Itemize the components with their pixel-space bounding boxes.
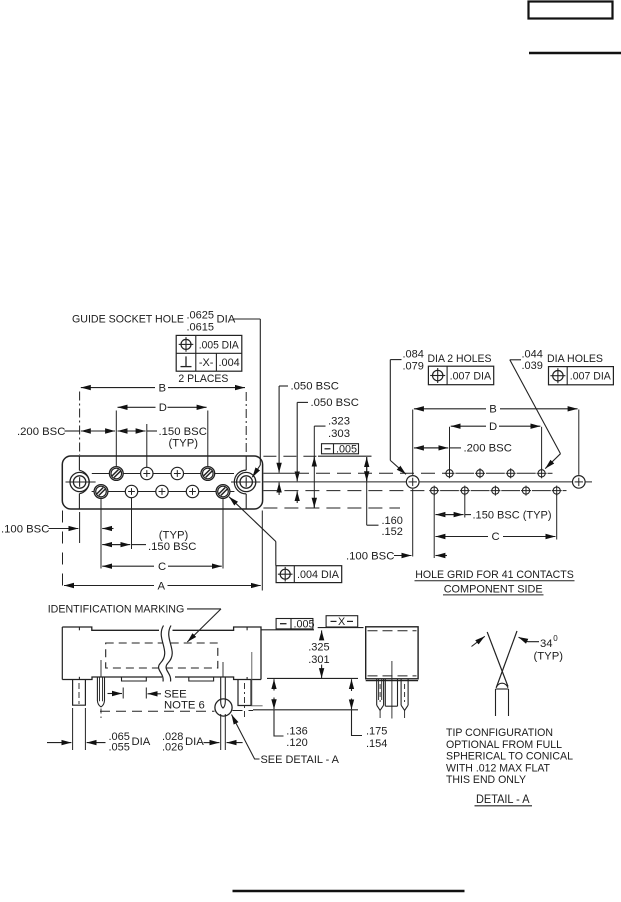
open contact hole at 131.5,491.5 [125,485,137,497]
svg-text:(TYP): (TYP) [169,437,199,449]
svg-text:.100 BSC: .100 BSC [1,523,49,535]
svg-text:.303: .303 [328,428,350,440]
svg-text:.050 BSC: .050 BSC [311,397,359,409]
identification marking dashed zone [106,643,218,668]
left guide socket hole [73,476,85,488]
svg-text:B: B [489,404,497,416]
extension line hole col 146.8 [146,424,148,467]
standoff boss 2 [189,677,214,681]
svg-text:.007 DIA: .007 DIA [450,371,492,383]
svg-text:SPHERICAL TO CONICAL: SPHERICAL TO CONICAL [446,751,573,763]
svg-text:.004 DIA: .004 DIA [297,569,340,581]
datum X box [318,627,364,629]
svg-text:.026: .026 [162,742,183,754]
.065/.055 DIA dimension [72,708,74,750]
.136/.120 dimension [273,679,275,690]
end view body [366,627,418,679]
svg-text:.154: .154 [366,738,387,750]
datum line under -.005 box [261,629,314,631]
end view pin C [400,680,402,706]
left end seam and guide boss arc [78,457,80,471]
leader from hatched hole to .004 DIA frame [229,497,276,542]
svg-text:X: X [338,616,345,628]
svg-text:(TYP): (TYP) [159,530,189,542]
detail A spherical tip arc [496,683,508,688]
svg-text:.005: .005 [294,619,315,631]
feature control frame .004 DIA [276,566,342,583]
svg-text:THIS END ONLY: THIS END ONLY [446,774,526,786]
contact hole position symbol at 449.5,473.3 [446,470,453,477]
extension line hole col 116.3 [115,411,117,467]
svg-text:COMPONENT SIDE: COMPONENT SIDE [444,583,543,595]
svg-text:.084: .084 [403,349,424,361]
contact hole position symbol at 510.7,473.3 [507,470,514,477]
leader to right guide hole [234,318,261,320]
feature control frame (guide holes) [176,335,242,371]
pin tip plane dashed line [100,710,215,712]
standoff boss 1 [122,677,147,681]
open contact hole at 192.5,491.5 [186,485,198,497]
dimension D (left view) [118,406,156,408]
.150 BSC (grid) [435,514,458,516]
dimension C (left view) [102,565,154,567]
extension line hole col 207.8 [207,411,209,467]
svg-text:.007 DIA: .007 DIA [570,371,612,383]
contact hole position symbol at 541.6,473.3 [538,470,545,477]
svg-text:34: 34 [540,638,553,650]
svg-text:B: B [159,382,167,394]
contact hole position symbol at 480,473.3 [476,470,483,477]
.200 BSC (grid) [414,447,443,449]
break squiggle [159,626,173,682]
svg-text:OPTIONAL FROM FULL: OPTIONAL FROM FULL [446,739,562,751]
contact pin 1 (side view) [96,677,98,700]
svg-text:.004: .004 [218,357,239,369]
.325/.301 dimension [321,630,323,639]
svg-text:0: 0 [553,634,558,643]
svg-text:.100 BSC: .100 BSC [346,550,394,562]
svg-text:.200 BSC: .200 BSC [17,426,65,438]
svg-text:.301: .301 [308,654,329,666]
contact hole position symbol at 556.7,490.6 [553,487,560,494]
open contact hole at 146.8,473.5 [141,467,153,479]
svg-text:D: D [159,402,167,414]
svg-text:-X-: -X- [199,357,214,369]
svg-text:C: C [492,531,500,543]
feature control frame .007 DIA (right) [549,367,614,385]
svg-text:DIA HOLES: DIA HOLES [547,353,603,365]
svg-text:(TYP): (TYP) [534,650,564,662]
header classification box (empty) [529,2,613,19]
svg-text:A: A [158,580,166,592]
grid extension lines [412,410,414,475]
row datum lines between the two top views [263,455,318,457]
svg-text:IDENTIFICATION MARKING: IDENTIFICATION MARKING [48,604,185,616]
.028/.026 DIA dimension [220,714,222,750]
svg-text:.079: .079 [403,360,424,372]
svg-text:HOLE GRID FOR 41 CONTACTS: HOLE GRID FOR 41 CONTACTS [415,569,574,581]
svg-text:.325: .325 [308,641,329,653]
.160/.152 dimension [366,457,368,481]
svg-text:DIA 2 HOLES: DIA 2 HOLES [428,353,492,365]
detail circle around pin tip [215,699,232,716]
angle arrows 34 deg [472,636,485,646]
right end seam and guide boss arc [245,457,247,471]
dimension B (left view) [81,387,155,389]
svg-text:.039: .039 [522,360,543,372]
end cavity hidden line [252,652,263,706]
left guide pin (side view) [73,680,86,705]
.175/.154 dimension [351,679,353,691]
svg-text:.044: .044 [522,348,543,360]
detail A taper lines [487,632,508,687]
svg-text:.136: .136 [286,725,307,737]
open contact hole at 177.3,473.5 [171,467,183,479]
contact hole position symbol at 434.2,490.6 [431,487,438,494]
contact hole position symbol at 526,490.6 [522,487,529,494]
feature control frame .007 DIA (left) [428,366,493,385]
svg-text:.0625: .0625 [187,310,215,322]
right guide pin (side view) [238,680,251,706]
svg-text:.160: .160 [382,515,403,527]
svg-text:.0615: .0615 [187,322,215,334]
svg-text:D: D [489,421,497,433]
.150 BSC dimension (left view top) [118,430,141,432]
svg-text:SEE DETAIL - A: SEE DETAIL - A [261,754,340,766]
seating plane line to end view [253,709,358,711]
svg-text:.005 DIA: .005 DIA [199,339,240,351]
left guide hole (grid) [406,476,419,489]
hatched (filled) contact hole at 116.3,473.5 [109,467,123,481]
svg-text:NOTE 6: NOTE 6 [164,699,205,711]
flatness box -.005 (side view) [276,619,313,629]
header rule line [529,52,621,55]
svg-text:DIA: DIA [217,314,236,326]
dimension A (left view) [64,585,154,587]
end view pin A [376,680,378,706]
end view middle flat tab [384,680,386,707]
right guide hole (grid) [573,476,586,489]
svg-text:.055: .055 [109,742,130,754]
hatched (filled) contact hole at 223,491.5 [216,485,230,499]
svg-text:2 PLACES: 2 PLACES [178,373,228,385]
.150 BSC dimension (left view bottom) [102,544,125,546]
contact hole position symbol at 464.8,490.6 [461,487,468,494]
svg-text:C: C [158,561,166,573]
svg-text:.323: .323 [328,416,350,428]
svg-text:WITH .012 MAX FLAT: WITH .012 MAX FLAT [446,762,550,774]
side view body outline [61,627,63,680]
svg-text:GUIDE SOCKET HOLE: GUIDE SOCKET HOLE [72,314,184,326]
svg-text:.200 BSC: .200 BSC [464,443,512,455]
connector body (plan view, rounded rectangle) [62,456,262,509]
svg-text:.005: .005 [336,444,357,456]
svg-text:.120: .120 [286,737,307,749]
svg-text:.050 BSC: .050 BSC [291,381,339,393]
svg-text:TIP CONFIGURATION: TIP CONFIGURATION [446,727,553,739]
end view centerline [391,661,393,719]
svg-text:DETAIL - A: DETAIL - A [476,794,530,806]
dimension B (grid) [414,408,486,410]
centerline extension right guide [245,392,247,455]
open contact hole at 162,491.5 [156,485,168,497]
centerline extension left guide [79,392,81,456]
flatness tolerance box -.005 (plan) [322,444,359,454]
top row line segments [92,473,110,475]
detail A pin cylinder [496,688,509,690]
svg-text:DIA: DIA [185,736,204,748]
svg-text:.175: .175 [366,725,387,737]
hatched (filled) contact hole at 101,491.5 [94,485,108,499]
bottom row line segments [92,491,94,493]
dimension C (grid) [435,536,488,538]
svg-text:.150 BSC: .150 BSC [148,541,196,553]
contact pin 2 - circled (side view) [220,677,222,702]
dimension D (grid) [451,425,486,427]
svg-text:DIA: DIA [132,736,151,748]
hatched (filled) contact hole at 207.8,473.5 [201,467,215,481]
right guide socket hole [240,476,252,488]
svg-text:.150 BSC (TYP): .150 BSC (TYP) [473,509,552,521]
footer rule line [233,890,465,893]
svg-text:.152: .152 [382,526,403,538]
svg-text:.150 BSC: .150 BSC [159,426,207,438]
body bottom extension line [267,677,358,679]
contact hole position symbol at 495.4,490.6 [492,487,499,494]
